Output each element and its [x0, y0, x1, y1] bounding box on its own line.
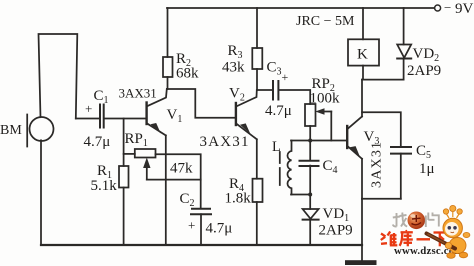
wire K/VD2 junction [362, 79, 404, 81]
wire R3/V2 collector to C3 [257, 89, 272, 91]
svg-text:+: + [282, 70, 289, 84]
wire emitter bottom to C5 bottom [362, 198, 401, 200]
svg-text:C4: C4 [323, 158, 338, 176]
watermark [381, 205, 470, 258]
resistor R4 [253, 179, 263, 202]
ku [405, 230, 407, 232]
svg-text:3AX31: 3AX31 [200, 134, 250, 150]
svg-text:43k: 43k [222, 60, 245, 76]
svg-text:−: − [444, 0, 451, 15]
svg-text:1μ: 1μ [419, 161, 435, 177]
xia [434, 231, 448, 233]
svg-text:4.7μ: 4.7μ [265, 103, 292, 119]
svg-text:9V: 9V [455, 1, 474, 17]
svg-text:C5: C5 [416, 143, 431, 161]
wire loop to C1 [76, 118, 99, 120]
resistor R3 [256, 8, 258, 48]
watermark red circle chip logo [0, 0, 1, 1]
relay K [362, 8, 364, 39]
svg-text:VD2: VD2 [413, 46, 440, 64]
svg-text:2AP9: 2AP9 [319, 223, 353, 239]
svg-text:C3: C3 [267, 60, 282, 78]
watermark gray char zhao [393, 213, 407, 227]
wire tank top to V3 base [291, 140, 347, 142]
wire V2 emitter to R4 [256, 139, 258, 178]
node junction [308, 139, 312, 143]
wire V3 emitter down [361, 159, 363, 199]
svg-text:V1: V1 [167, 107, 183, 125]
node junction [308, 193, 312, 197]
wire R1 to bus [123, 188, 125, 246]
microphone BM [30, 117, 54, 141]
wire bottom bus [41, 244, 362, 246]
wire R4 to bus [256, 202, 258, 245]
resistor R2 [167, 8, 169, 57]
wei [381, 234, 386, 237]
node 9V terminal [435, 5, 441, 11]
wire to RP1 left [124, 153, 135, 155]
resistor R1 [119, 166, 129, 188]
svg-text:V2: V2 [229, 86, 245, 104]
svg-text:R3: R3 [228, 43, 243, 61]
svg-text:C2: C2 [180, 191, 195, 209]
wire RP2 wiper arrow [321, 111, 332, 113]
wire RP2 bottom to tank node [309, 126, 311, 141]
transistor V3 [346, 126, 348, 148]
svg-text:3AX31: 3AX31 [119, 86, 157, 101]
wire RP1 right to C2 top corner [156, 154, 201, 208]
ground [345, 260, 377, 265]
svg-text:68k: 68k [176, 66, 199, 82]
wire V3 collector to C5 [362, 112, 401, 147]
potentiometer RP2 [305, 104, 316, 126]
svg-text:4.7μ: 4.7μ [84, 134, 111, 150]
wire emitter to ground [361, 199, 363, 261]
wire mic loop [39, 34, 78, 119]
wire mic to ground bus [40, 140, 42, 245]
diode VD2 [403, 8, 405, 45]
svg-text:4.7μ: 4.7μ [206, 221, 233, 237]
svg-text:+: + [188, 218, 195, 233]
wire wiper down to tank top [330, 112, 332, 141]
svg-text:BM: BM [0, 123, 22, 138]
svg-text:L: L [272, 139, 281, 155]
capacitor C3 [272, 81, 274, 100]
transistor V1 [145, 103, 147, 125]
ferrite core bars [279, 152, 281, 163]
wire C3 to RP2 [279, 90, 310, 104]
svg-text:3AX31: 3AX31 [370, 141, 385, 188]
svg-text:5.1k: 5.1k [91, 178, 118, 194]
wire wiper to C2 node [147, 179, 201, 181]
svg-text:C1: C1 [94, 88, 109, 106]
watermark mascot [427, 205, 470, 258]
svg-text:RP1: RP1 [125, 131, 148, 149]
potentiometer RP1 [135, 149, 156, 158]
svg-text:47k: 47k [170, 161, 193, 177]
yi [417, 238, 431, 240]
svg-text:JRC − 5M: JRC − 5M [296, 14, 355, 29]
watermark red text weikuyixia [381, 230, 447, 247]
transistor V2 [235, 103, 237, 125]
svg-text:+: + [85, 101, 92, 116]
svg-text:100k: 100k [310, 91, 341, 107]
svg-text:VD1: VD1 [323, 206, 350, 224]
wire C1 to V1 base [105, 118, 146, 120]
capacitor C1 [99, 105, 101, 128]
wire V3 collector up [361, 80, 363, 117]
wire top supply rail [167, 7, 434, 9]
svg-text:1.8k: 1.8k [225, 191, 252, 207]
wire tank bottom [291, 194, 310, 196]
capacitor C2 [192, 208, 210, 210]
wire V1 collector to V2 base [167, 89, 236, 118]
watermark gray char pian [426, 213, 439, 228]
capacitor C4 [309, 141, 311, 161]
wire RP1 wiper arrow [146, 163, 148, 180]
capacitor C5 [391, 146, 411, 148]
svg-text:2AP9: 2AP9 [407, 63, 441, 79]
svg-text:K: K [357, 47, 368, 63]
inductor L [287, 141, 291, 195]
wire V1 emitter to bus [165, 135, 167, 245]
wire node down to RP1/R1 [123, 119, 125, 167]
diode VD1 [309, 195, 311, 210]
